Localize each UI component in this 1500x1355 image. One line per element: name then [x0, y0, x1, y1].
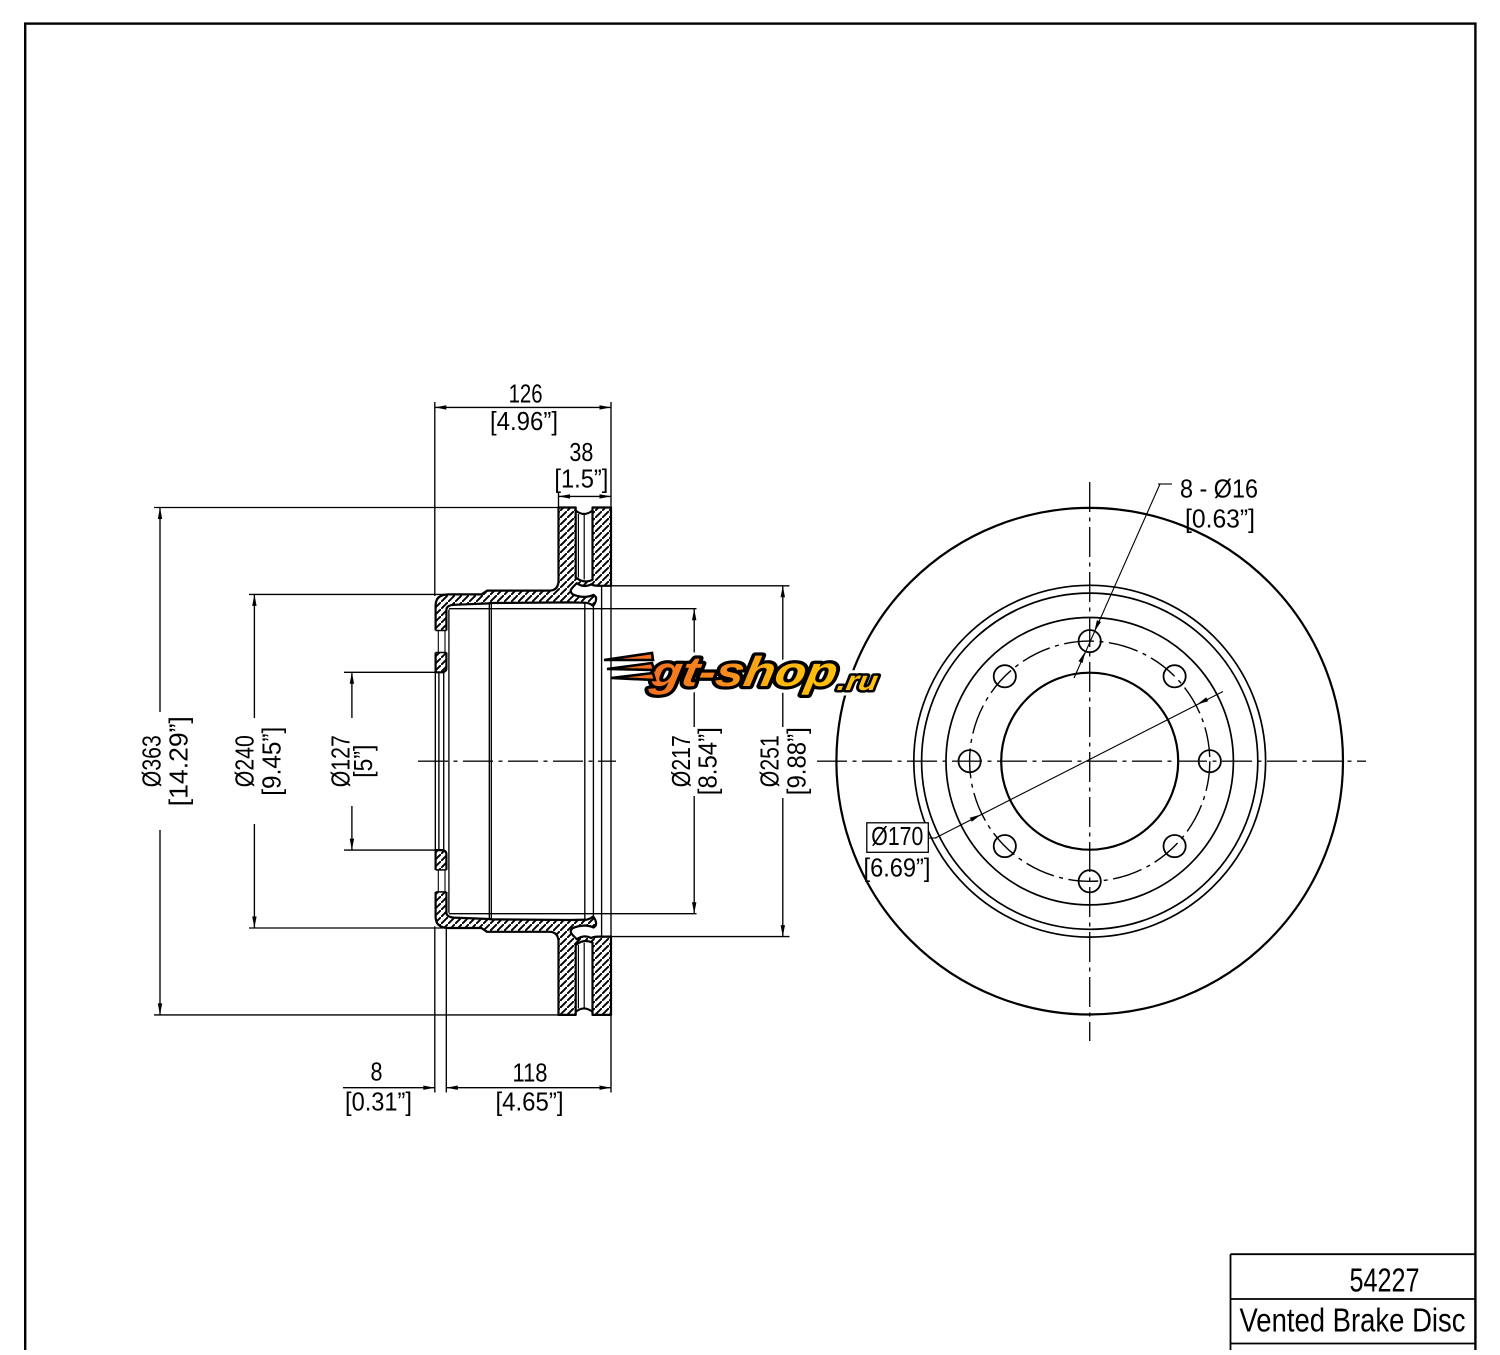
svg-text:[5”]: [5”] — [348, 745, 378, 778]
svg-text:[8.54”]: [8.54”] — [693, 727, 723, 795]
svg-text:[9.45”]: [9.45”] — [257, 727, 287, 796]
svg-text:gt-shop: gt-shop — [646, 648, 841, 695]
svg-text:38: 38 — [569, 437, 593, 467]
svg-text:[0.31”]: [0.31”] — [345, 1087, 412, 1117]
svg-text:[0.63”]: [0.63”] — [1185, 504, 1255, 534]
svg-text:[14.29”]: [14.29”] — [164, 716, 194, 806]
svg-text:Ø240: Ø240 — [230, 735, 260, 787]
svg-text:54227: 54227 — [1350, 1262, 1420, 1299]
svg-text:118: 118 — [513, 1058, 548, 1088]
svg-text:8 - Ø16: 8 - Ø16 — [1180, 474, 1258, 504]
svg-text:[4.96”]: [4.96”] — [490, 406, 558, 436]
svg-text:Vented Brake Disc: Vented Brake Disc — [1240, 1302, 1466, 1339]
svg-text:Ø251: Ø251 — [755, 735, 785, 787]
svg-text:Ø170: Ø170 — [871, 821, 923, 851]
svg-text:[4.65”]: [4.65”] — [496, 1087, 564, 1117]
svg-text:8: 8 — [371, 1057, 383, 1087]
svg-text:126: 126 — [509, 379, 543, 409]
svg-text:[9.88”]: [9.88”] — [782, 727, 812, 795]
svg-text:Ø217: Ø217 — [666, 735, 696, 787]
svg-text:[6.69”]: [6.69”] — [864, 853, 931, 883]
svg-text:Ø363: Ø363 — [137, 735, 167, 787]
svg-text:[1.5”]: [1.5”] — [554, 463, 608, 493]
svg-text:.ru: .ru — [835, 665, 881, 696]
